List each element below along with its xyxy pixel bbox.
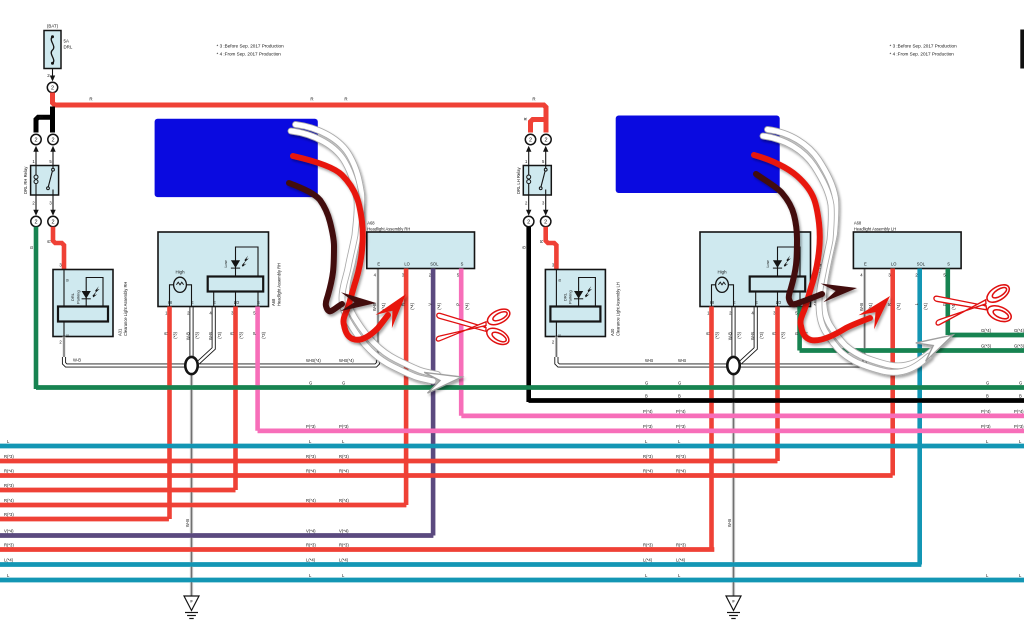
svg-text:R(*4): R(*4) [306,498,316,503]
svg-text:W-B: W-B [728,332,733,340]
fuse output pin 2 wire [52,69,54,78]
wire bus L(*4) y=564.5 [0,562,921,567]
svg-text:R: R [164,332,169,335]
LED DRL/Parking in A31 [85,292,87,307]
svg-text:Clearance Light Assembly LH: Clearance Light Assembly LH [615,282,620,336]
wire bus R(*4) overdraw [0,503,406,508]
svg-text:(*3): (*3) [261,331,266,338]
wire bus L y=580.0 [0,578,1024,583]
ground symbol LH [726,596,741,611]
svg-text:R: R [523,118,528,121]
svg-text:R(*3): R(*3) [676,543,686,548]
lamp module A31 Clearance Light Assembly RH box [53,270,113,337]
svg-text:R(*3): R(*3) [306,543,316,548]
svg-text:G(*4): G(*4) [1014,328,1024,333]
svg-text:LO: LO [404,262,409,267]
svg-text:B: B [645,394,648,399]
wire bus R(*3) overdraw [0,459,777,464]
svg-text:L(*4): L(*4) [306,558,316,563]
svg-text:W-B: W-B [859,303,864,311]
LED DRL/Parking in A30 [578,292,580,307]
svg-text:R(*3): R(*3) [4,483,14,488]
svg-text:L(*4): L(*4) [4,558,14,563]
svg-text:L(*4): L(*4) [676,558,686,563]
svg-text:W-B: W-B [185,519,190,527]
svg-text:W-B: W-B [208,332,213,340]
svg-text:R(*3): R(*3) [339,543,349,548]
wire R connector RH LO to bus R(*4) [404,269,409,506]
svg-text:P: P [455,303,460,306]
wire R headlight LH LO to bus R(*3) [775,307,780,462]
svg-text:(*3): (*3) [759,331,764,338]
wire bus R(*4) y=505.0 [0,503,406,508]
svg-text:S: S [947,262,950,267]
svg-text:P(*4): P(*4) [981,409,991,414]
svg-text:DRL: DRL [562,292,567,301]
wire R main feed from fuse to DRL LH relay [53,93,547,133]
svg-text:(*4): (*4) [464,302,469,309]
svg-text:R: R [89,97,92,102]
wire bus P(*3) y=430.8 [258,428,1024,433]
svg-text:V(*4): V(*4) [4,529,14,534]
svg-text:SOL: SOL [917,262,926,267]
svg-text:G: G [309,381,312,386]
svg-text:DRL: DRL [70,292,75,301]
svg-text:G: G [794,332,799,335]
relay DRL RH Relay pin wires top [35,152,37,166]
svg-text:E: E [213,300,216,305]
svg-text:R(*4): R(*4) [4,469,14,474]
wire bus L(*4) overdraw [0,562,921,567]
wire W-B headlight LH E pin2 down to ground [731,307,735,358]
svg-text:L(*4): L(*4) [643,558,653,563]
connector node 2 below fuse [47,82,57,92]
svg-text:R(*4): R(*4) [643,469,653,474]
red annotation arrow RH [293,156,406,340]
svg-text:2: 2 [544,138,547,144]
svg-text:DRL: DRL [64,45,73,50]
svg-text:R: R [344,97,347,102]
svg-text:P(*4): P(*4) [643,409,653,414]
wire bus L overdraw [0,444,1024,449]
svg-text:E: E [733,300,736,305]
svg-text:G: G [1019,381,1022,386]
svg-text:W-B: W-B [727,519,732,527]
wire W-B from A30 to junction LH and up to headlight LH connector E [555,337,558,359]
svg-text:R(*3): R(*3) [4,512,14,517]
svg-text:R(*3): R(*3) [643,454,653,459]
node 2 DRL RH relay pin5 [48,134,58,144]
wire R from DRL LH relay to A30 [546,227,557,270]
wire W-B headlight RH E pin2 down to ground [189,307,193,358]
wire B branch from feed corner to DRL RH relay [50,107,55,120]
svg-text:E: E [377,262,380,267]
junction oval RH [185,357,197,374]
wire bus R(*3) y=490.0 [0,488,236,493]
svg-text:R(*3): R(*3) [676,454,686,459]
blue callout box RH [155,119,318,197]
dark red annotation arrow LH [756,174,857,304]
svg-text:B: B [1019,394,1022,399]
svg-text:R(*4): R(*4) [676,469,686,474]
svg-text:2: 2 [51,86,54,92]
svg-text:E: E [557,334,562,337]
svg-text:G(*4): G(*4) [981,328,992,333]
connector strip inside A30 [550,307,600,322]
wire W-B from A31 to junction and up to headlight RH connector E [63,337,66,359]
svg-text:HI: HI [710,300,714,305]
svg-text:R(*4): R(*4) [4,498,14,503]
wire bus B overdraw [529,398,1024,403]
svg-text:(*3): (*3) [781,331,786,338]
svg-text:E: E [65,334,70,337]
svg-text:V(*4): V(*4) [339,529,349,534]
wire R from DRL RH relay to A31 [53,227,64,270]
svg-text:R: R [47,240,52,243]
svg-text:S: S [461,262,464,267]
headlight module A68 box [700,232,811,307]
svg-text:L(*4): L(*4) [339,558,349,563]
lamp module A30 Clearance Light Assembly LH box [545,270,605,337]
svg-text:Headlight Assembly LH: Headlight Assembly LH [854,227,896,232]
svg-text:DRL LH Relay: DRL LH Relay [516,166,521,194]
wire P headlight RH S to bus P(*3) [255,307,260,431]
svg-text:B: B [557,279,562,282]
svg-text:R(*4): R(*4) [339,469,349,474]
svg-text:G: G [29,246,34,249]
node 2 below DRL RH relay pin3 [48,216,58,226]
svg-text:R(*3): R(*3) [4,454,14,459]
svg-text:R(*4): R(*4) [306,469,316,474]
wire P connector RH S to bus P(*4) [459,269,464,416]
svg-text:G: G [986,381,989,386]
svg-text:High: High [175,270,185,275]
wire R headlight RH HI to bus R(*3) [167,307,172,520]
wire bus G(*3) y=350.5 [800,348,1024,353]
svg-text:2: 2 [34,220,37,226]
svg-text:R: R [539,240,544,243]
cut-off fuse box right edge [1021,30,1024,68]
svg-text:B: B [65,279,70,282]
wire bus R(*3) y=461.0 [0,459,777,464]
connector strip inside A31 [58,307,108,322]
svg-text:(BAT): (BAT) [47,24,59,29]
wire bus P(*4) y=415.8 [461,413,1024,418]
svg-text:A68: A68 [271,298,276,306]
svg-text:R(*3): R(*3) [306,454,316,459]
svg-text:P(*3): P(*3) [643,424,653,429]
svg-text:(*4): (*4) [436,302,441,309]
node 2 below DRL LH relay pin3 [541,216,551,226]
node 2 DRL LH relay pin1 [525,134,535,144]
wire bus R(*3) overdraw [0,547,714,552]
wire W-B headlight LH E pin4 jog to junction [741,307,756,363]
svg-text:R(*3): R(*3) [339,454,349,459]
svg-text:LO: LO [234,300,239,305]
dark red annotation arrow RH [289,183,376,311]
svg-text:2: 2 [527,220,530,226]
svg-text:(*3): (*3) [195,331,200,338]
svg-text:W-B(*4): W-B(*4) [306,358,321,363]
wire bus P(*3) overdraw [258,428,1024,433]
svg-text:P(*4): P(*4) [1014,409,1024,414]
wire L connector LH SOL to bus L(*4) [917,269,922,565]
svg-text:B: B [522,246,527,249]
wire bus L y=446.0 [0,444,1024,449]
svg-text:P: P [252,332,257,335]
svg-text:W-B: W-B [645,358,653,363]
svg-text:G: G [342,381,345,386]
wire bus B y=400.5 [529,398,1024,403]
wire V connector RH SOL to bus V(*4) [431,269,436,536]
svg-text:* 4 :From Sep. 2017 Production: * 4 :From Sep. 2017 Production [890,52,955,57]
svg-text:* 3 :Before Sep. 2017 Producti: * 3 :Before Sep. 2017 Production [890,44,958,49]
ground symbol RH [184,596,199,611]
wire G from DRL RH relay to G bus [34,227,39,389]
svg-text:R: R [532,97,535,102]
node 2 below DRL LH relay pin2 [524,216,534,226]
wire bus R(*3) y=549.5 [0,547,714,552]
svg-text:* 3 :Before Sep. 2017 Producti: * 3 :Before Sep. 2017 Production [217,44,285,49]
scissors annotation LH [933,281,1015,331]
wire bus G(*4) overdraw [948,333,1024,338]
svg-text:W-B: W-B [372,303,377,311]
svg-text:R: R [310,97,313,102]
wire bus V(*4) overdraw [0,533,433,538]
wire W-B headlight RH E pin4 jog to junction [199,307,214,363]
svg-text:DRL RH Relay: DRL RH Relay [23,166,28,194]
relay DRL RH Relay pin wires bottom [35,195,37,210]
svg-text:R: R [887,303,892,306]
svg-text:LO: LO [891,262,896,267]
svg-text:5A: 5A [64,39,69,44]
svg-text:2: 2 [34,138,37,144]
wire bus R(*3) overdraw [0,517,169,522]
svg-text:G: G [678,381,681,386]
svg-text:LO: LO [776,300,781,305]
wire bus R(*4) y=475.5 [0,473,893,478]
svg-text:(*3): (*3) [715,331,720,338]
svg-text:(*3): (*3) [217,331,222,338]
svg-text:P(*4): P(*4) [676,409,686,414]
svg-text:B: B [986,394,989,399]
svg-text:HI: HI [168,300,172,305]
svg-text:R(*3): R(*3) [4,543,14,548]
wire bus R(*3) y=519.0 [0,517,169,522]
svg-text:P(*3): P(*3) [306,424,316,429]
wire B from DRL LH relay to B bus [526,227,531,402]
node 2 DRL LH relay pin5 [541,134,551,144]
svg-text:E: E [755,300,758,305]
svg-text:P(*3): P(*3) [339,424,349,429]
connector strip inside A68 [208,277,264,292]
svg-text:(*4): (*4) [896,302,901,309]
svg-text:W-B: W-B [750,332,755,340]
wire bus G(*4) y=335.0 [948,333,1024,338]
svg-text:R: R [706,332,711,335]
node 2 below DRL RH relay pin2 [31,216,41,226]
wire R connector LH LO to bus R(*4) [890,269,895,476]
svg-text:Parking: Parking [568,290,573,304]
svg-text:W-B: W-B [73,358,81,363]
svg-text:P(*3): P(*3) [1014,424,1024,429]
svg-text:G(*3): G(*3) [981,344,992,349]
svg-text:G(*3): G(*3) [1014,344,1024,349]
svg-text:P(*3): P(*3) [676,424,686,429]
svg-text:A68: A68 [367,221,375,226]
svg-text:E: E [191,300,194,305]
relay DRL RH Relay box [31,166,59,196]
svg-text:G: G [645,381,648,386]
svg-text:* 4 :From Sep. 2017 Production: * 4 :From Sep. 2017 Production [217,52,282,57]
relay DRL LH Relay pin wires bottom [528,195,530,210]
svg-text:SOL: SOL [430,262,439,267]
svg-text:Low: Low [765,260,770,267]
relay DRL LH Relay pin wires top [528,152,530,166]
white annotation arrow LH [763,130,953,373]
wire bus P(*4) overdraw [461,413,1024,418]
scissors annotation RH [436,305,512,348]
svg-text:Low: Low [223,260,228,267]
wire R headlight LH HI to bus R(*3) [709,307,714,550]
svg-text:B: B [39,115,44,118]
white annotation arrow RH [291,125,462,394]
wire bus L overdraw [0,578,1024,583]
svg-text:(*3): (*3) [173,331,178,338]
junction oval LH [727,357,739,374]
svg-text:Parking: Parking [75,290,80,304]
svg-text:S: S [257,300,260,305]
svg-text:R(*3): R(*3) [643,543,653,548]
connector strip inside A68 [750,277,806,292]
svg-text:R(*4): R(*4) [339,498,349,503]
svg-text:(*4): (*4) [923,302,928,309]
svg-text:2: 2 [51,220,54,226]
node 2 DRL RH relay pin1 [31,134,41,144]
red annotation arrow LH [754,155,890,340]
svg-text:High: High [717,270,727,275]
wire bus G y=387.5 [36,385,1024,390]
svg-text:A30: A30 [610,328,615,336]
wire G connector LH S to bus G(*4) [945,269,950,336]
wire bus G(*3) overdraw [800,348,1024,353]
headlight module A68 box [158,232,269,307]
blue callout box LH [616,116,780,194]
wire bus R(*3) overdraw [0,488,236,493]
svg-text:W-B(*4): W-B(*4) [339,358,354,363]
svg-text:Clearance Light Assembly RH: Clearance Light Assembly RH [123,282,128,336]
svg-text:A31: A31 [118,328,123,336]
wire bus V(*4) y=535.5 [0,533,433,538]
wire R headlight RH LO to bus R(*3) [233,307,238,491]
svg-text:R: R [772,332,777,335]
svg-text:Headlight Assembly RH: Headlight Assembly RH [367,227,410,232]
svg-text:W-B: W-B [186,332,191,340]
svg-text:2: 2 [51,138,54,144]
svg-text:Headlight Assembly RH: Headlight Assembly RH [277,263,282,306]
svg-text:2: 2 [529,138,532,144]
svg-text:A68: A68 [854,221,862,226]
svg-text:B: B [678,394,681,399]
svg-text:E: E [864,262,867,267]
svg-text:(*4): (*4) [409,302,414,309]
svg-text:(*3): (*3) [737,331,742,338]
svg-text:W-B: W-B [678,358,686,363]
svg-text:R: R [230,332,235,335]
svg-text:2: 2 [544,220,547,226]
svg-text:V(*4): V(*4) [306,529,316,534]
svg-text:P(*3): P(*3) [981,424,991,429]
wire bus G overdraw [36,385,1024,390]
svg-text:(*3): (*3) [239,331,244,338]
wire G headlight LH S to bus G(*3) [797,307,802,351]
relay DRL LH Relay box [523,166,551,196]
svg-text:V: V [427,303,432,306]
wire bus R(*4) overdraw [0,473,893,478]
wire R stub to DRL LH relay pin1 [531,120,547,133]
